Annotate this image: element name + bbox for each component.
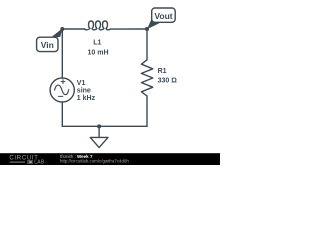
svg-text:330 Ω: 330 Ω [158, 78, 178, 85]
svg-text:Vin: Vin [41, 40, 54, 50]
svg-text:R1: R1 [158, 68, 167, 75]
svg-text:L1: L1 [93, 40, 101, 47]
svg-text:V1: V1 [77, 80, 86, 87]
svg-text:LAB: LAB [34, 160, 45, 165]
svg-text:sine: sine [77, 87, 91, 94]
svg-text:1 kHz: 1 kHz [77, 95, 96, 102]
svg-text:10 mH: 10 mH [87, 50, 108, 57]
svg-text:http://circuitlab.com/c/gwtfra: http://circuitlab.com/c/gwtfra7c4d0h [60, 159, 129, 164]
svg-text:Vout: Vout [154, 11, 172, 21]
